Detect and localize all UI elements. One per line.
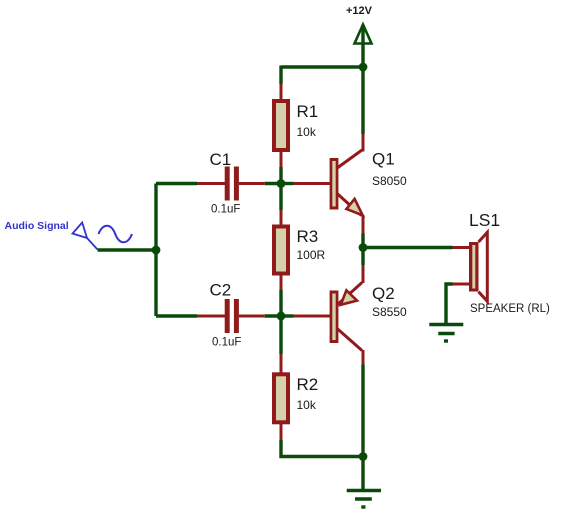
junction bottom rail: [359, 452, 368, 461]
svg-text:R1: R1: [297, 102, 319, 121]
wire node A to Q1 base green: [281, 182, 294, 185]
svg-text:0.1uF: 0.1uF: [212, 337, 241, 349]
junction node B (C2/R3/R2/Q2 base): [277, 312, 286, 321]
pin R2 bottom: [280, 424, 283, 440]
wire input row A green left: [156, 182, 197, 185]
wire Q2 collector to bottom rail: [361, 365, 364, 457]
wire Q2 emitter green: [361, 248, 364, 266]
pin R1 bottom: [280, 152, 283, 167]
wire R1 bottom green: [279, 167, 282, 184]
junction node A (C1/R1/R3/Q1 base): [277, 179, 286, 188]
wire R3 top green: [279, 184, 282, 211]
pin R3 top: [280, 210, 283, 225]
junction input node: [152, 246, 161, 255]
resistor R3: [272, 225, 290, 276]
pin C1 left: [197, 182, 225, 185]
pin C2 left: [197, 315, 225, 318]
wire output node to speaker: [363, 246, 453, 249]
power +12V symbol: [355, 25, 372, 68]
svg-text:10k: 10k: [297, 398, 317, 412]
svg-text:Q1: Q1: [372, 150, 395, 169]
input probe symbol: [73, 223, 98, 250]
pin R2 top: [280, 354, 283, 373]
svg-text:S8050: S8050: [372, 174, 407, 188]
svg-text:C2: C2: [210, 281, 232, 300]
pin LS1 top: [453, 246, 470, 249]
wire R2 top green: [279, 316, 282, 354]
pin Q1 emitter vertical: [362, 215, 365, 234]
pin C2 right: [239, 315, 265, 318]
wire input horizontal: [98, 248, 157, 252]
pin Q2 base: [294, 315, 331, 318]
svg-text:R3: R3: [297, 227, 319, 246]
pin R1 top: [280, 84, 283, 100]
capacitor C2: [225, 299, 239, 333]
wire C1 to node A: [265, 182, 281, 185]
junction output node: [359, 243, 368, 252]
wire R2 bottom to bottom rail: [281, 440, 363, 457]
capacitor C1: [225, 167, 239, 201]
wire input row B green left: [156, 314, 197, 317]
pin Q1 collector: [362, 134, 365, 152]
svg-text:LS1: LS1: [469, 210, 500, 230]
wire Q1 emitter to output node: [361, 234, 364, 248]
svg-text:C1: C1: [210, 150, 232, 169]
wire C2 to node B: [265, 314, 281, 317]
wire node B to Q2 base green: [281, 314, 294, 317]
pin Q2 collector: [362, 350, 365, 365]
svg-text:+12V: +12V: [346, 5, 373, 17]
svg-text:S8550: S8550: [372, 305, 407, 319]
svg-text:0.1uF: 0.1uF: [211, 204, 240, 216]
wire Q1 collector green: [361, 67, 364, 134]
svg-text:100R: 100R: [297, 248, 326, 262]
resistor R1: [272, 99, 290, 152]
ground (bottom): [347, 491, 381, 508]
pin LS1 bottom: [453, 283, 470, 286]
svg-text:SPEAKER (RL): SPEAKER (RL): [470, 303, 550, 315]
svg-text:10k: 10k: [297, 125, 317, 139]
resistor R2: [272, 372, 290, 424]
wire R3 bottom green: [279, 290, 282, 316]
transistor Q2: [330, 283, 362, 351]
svg-text:Q2: Q2: [372, 284, 395, 303]
svg-text:Audio Signal: Audio Signal: [5, 220, 69, 232]
wire bottom rail to ground: [361, 457, 364, 491]
pin C1 right: [239, 182, 265, 185]
input sine wave symbol: [99, 226, 133, 243]
pin Q2 emitter: [362, 265, 365, 283]
svg-text:R2: R2: [297, 375, 319, 394]
junction top rail: [359, 63, 368, 72]
wire R1 top green: [279, 66, 282, 85]
transistor Q1: [330, 150, 363, 216]
wire top rail: [281, 65, 363, 68]
pin R3 bottom: [280, 276, 283, 291]
pin Q1 base: [294, 182, 331, 185]
speaker LS1: [469, 232, 487, 301]
ground (speaker): [429, 325, 463, 342]
wire speaker to ground: [446, 284, 453, 325]
wire input vertical: [154, 184, 157, 317]
